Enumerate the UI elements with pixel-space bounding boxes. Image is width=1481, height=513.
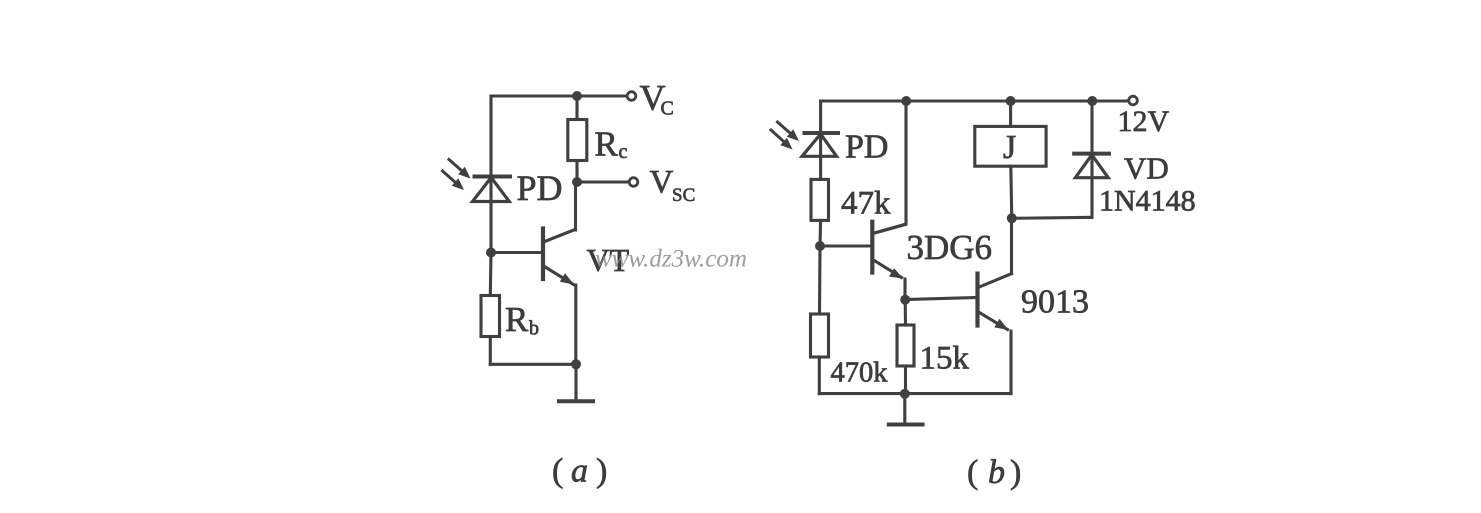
svg-text:VD: VD	[1124, 151, 1169, 186]
ground (b)	[889, 394, 923, 425]
wire base (a)	[491, 251, 542, 254]
svg-text:1N4148: 1N4148	[1099, 185, 1196, 218]
wire Rb top lead	[489, 253, 493, 296]
svg-text:SC: SC	[672, 185, 695, 206]
node bottom junction (a)	[571, 359, 581, 369]
wire top horizontal (b)	[821, 99, 1129, 102]
wire Rb bottom lead	[489, 337, 492, 365]
resistor 47k	[811, 179, 829, 220]
light arrow 2 (a)	[443, 171, 457, 183]
resistor 15k	[897, 325, 914, 366]
wire 3DG6 emitter vertical	[903, 279, 906, 300]
wire 9013 emitter vertical	[1009, 331, 1012, 394]
resistor 470k	[811, 314, 829, 357]
svg-text:12V: 12V	[1118, 105, 1170, 138]
wire left vertical to 470k	[818, 246, 822, 314]
wire Rc bottom lead	[575, 161, 578, 183]
node top junction 2 (b)	[1006, 96, 1016, 106]
svg-text:PD: PD	[517, 168, 563, 208]
label (b)	[967, 454, 1021, 491]
terminal 12V open circle	[1129, 96, 1138, 105]
wire 3DG6 collector vertical	[873, 101, 906, 234]
node top junction 1 (b)	[901, 96, 911, 106]
svg-text:R: R	[595, 125, 619, 164]
label Rc	[595, 125, 628, 164]
wire bottom horizontal (b)	[819, 392, 1011, 395]
relay J box	[975, 126, 1046, 166]
wire node to 9013 base	[905, 298, 977, 300]
wire 15k bottom lead	[904, 366, 907, 394]
node base junction (a)	[486, 248, 496, 258]
photodiode PD (b)	[771, 122, 838, 156]
svg-text:47k: 47k	[841, 186, 891, 222]
svg-text:C: C	[661, 98, 674, 120]
transistor VT	[543, 229, 575, 285]
svg-text:): )	[1010, 454, 1021, 491]
wire left vertical (a)	[489, 96, 492, 253]
svg-text:): )	[596, 453, 607, 490]
wire 470k to bottom	[818, 357, 821, 394]
wire relay bottom lead	[1011, 166, 1012, 218]
wire top horizontal (a)	[491, 94, 627, 97]
wire left vertical (b)	[819, 101, 822, 179]
svg-text:470k: 470k	[831, 358, 889, 389]
ground (a)	[559, 364, 593, 401]
resistor Rc	[568, 120, 587, 161]
terminal Vsc open circle	[629, 178, 638, 187]
label Vc	[640, 78, 674, 120]
node base junction (b)	[815, 241, 825, 251]
diode VD	[1074, 101, 1109, 217]
resistor Rb	[481, 296, 500, 337]
transistor 9013	[978, 274, 1012, 330]
svg-text:J: J	[1003, 129, 1016, 166]
wire node to diode bottom	[1012, 217, 1092, 218]
svg-text:(: (	[552, 453, 563, 490]
wire 15k top lead	[904, 300, 907, 325]
terminal Vc open circle	[627, 92, 636, 101]
svg-text:(: (	[967, 454, 978, 491]
node top junction 3 (b)	[1087, 96, 1097, 106]
transistor 3DG6	[872, 222, 905, 279]
wire relay top lead	[1009, 101, 1012, 126]
svg-text:b: b	[529, 318, 539, 340]
wire collector vertical (a)	[574, 182, 577, 230]
light arrow 2 (b)	[771, 130, 785, 143]
svg-text:a: a	[571, 453, 588, 490]
svg-text:c: c	[619, 141, 628, 163]
svg-text:www.dz3w.com: www.dz3w.com	[595, 246, 747, 273]
wire bottom horizontal (a)	[490, 363, 576, 366]
wire Rc top lead	[575, 96, 578, 120]
photodiode PD (a)	[443, 160, 511, 202]
node bottom junction (b)	[900, 389, 910, 399]
wire to Vsc terminal	[577, 180, 629, 183]
svg-text:R: R	[505, 300, 529, 339]
light arrow 1 (a)	[449, 160, 463, 172]
svg-text:b: b	[988, 454, 1005, 491]
label Vsc	[650, 165, 696, 207]
svg-text:PD: PD	[845, 129, 888, 166]
wire 9013 collector vertical	[1010, 219, 1013, 274]
svg-text:15k: 15k	[920, 341, 970, 377]
svg-text:3DG6: 3DG6	[907, 228, 993, 267]
svg-text:V: V	[650, 165, 674, 201]
svg-text:9013: 9013	[1021, 284, 1089, 321]
node collector junction (b)	[1007, 213, 1017, 223]
node emitter junction (b)	[900, 295, 910, 305]
wire 47k to node	[818, 220, 822, 246]
label Rb	[505, 300, 539, 340]
label (a)	[552, 453, 607, 490]
wire emitter vertical (a)	[574, 285, 577, 364]
light arrow 1 (b)	[778, 122, 792, 134]
wire base 3DG6	[820, 244, 872, 247]
node Vsc junction	[572, 177, 582, 187]
node top junction (a)	[572, 91, 582, 101]
